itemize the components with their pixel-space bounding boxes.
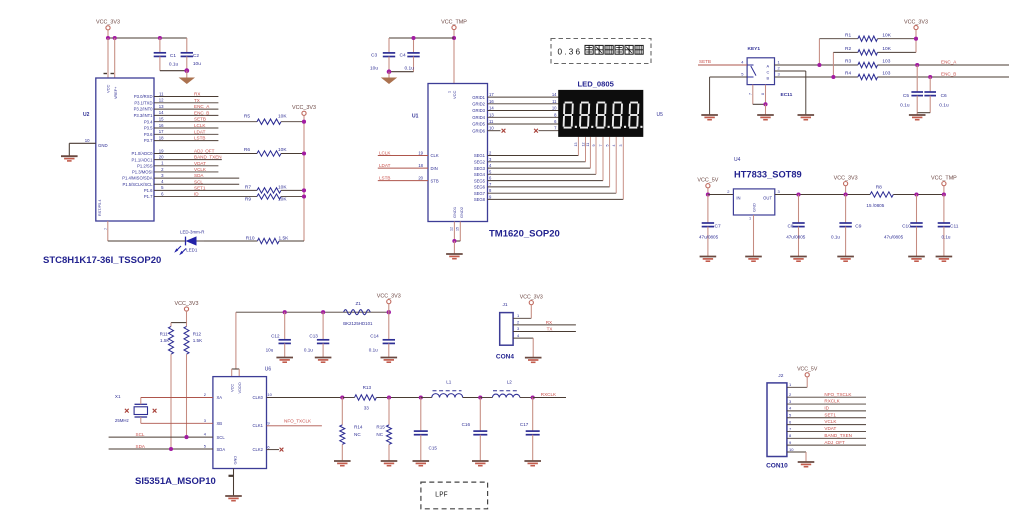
ground under C16 [472,460,489,462]
svg-text:C2: C2 [193,53,199,59]
ground under C14 [381,357,398,359]
wire GND pin [69,142,96,144]
ground at key pin5 [701,114,718,116]
svg-text:103: 103 [882,59,890,65]
ground under J1 [525,357,542,359]
svg-text:7: 7 [104,228,108,230]
svg-text:GRID2: GRID2 [472,102,485,107]
j2 pin9 wire net ADJ_OFT [787,444,866,446]
svg-text:TM1620_SOP20: TM1620_SOP20 [489,229,560,240]
net label SCL wire [109,436,213,438]
svg-text:RX: RX [546,320,552,325]
ground under C5/C6 [909,114,926,116]
junction dot [452,239,456,243]
svg-text:R10: R10 [246,235,255,241]
svg-text:16: 16 [489,99,494,104]
wire R10 to rail [279,240,304,242]
svg-text:U5: U5 [657,112,664,118]
svg-text:0.1u: 0.1u [900,103,910,109]
wire U4 out rail [775,194,870,196]
display digits 8.8.8.8.8. [565,102,573,104]
svg-text:NC: NC [354,432,361,437]
svg-text:C: C [767,70,770,75]
ground under C12 [276,357,293,359]
svg-text:GND: GND [233,456,238,465]
capacitor C2 [186,38,188,53]
j1 pin2 wire net RX [513,324,576,326]
junction dots rail [283,310,287,314]
capacitor C3 [388,38,390,53]
ground under J2 [798,461,815,463]
svg-text:P1.7: P1.7 [144,194,153,199]
junction dot R11/SDA [169,447,173,451]
svg-text:11: 11 [586,143,590,147]
svg-text:VDAT: VDAT [824,426,836,431]
svg-text:GRID5: GRID5 [472,122,485,127]
svg-text:R6: R6 [244,147,250,153]
note dashed box LPF [421,482,488,509]
ground at key pin2 [798,114,815,116]
tm1620 pin DIN net LDAT [378,167,428,169]
svg-text:VCC_3V3: VCC_3V3 [520,294,543,300]
svg-text:7: 7 [748,93,752,95]
j2 pin5 wire net SET1 [787,417,866,419]
svg-text:10K: 10K [882,46,891,52]
svg-text:P3.5: P3.5 [144,126,153,131]
resistor R8 15/0805 [870,192,893,197]
wire SEG3 riser to display [589,137,591,168]
svg-text:A: A [767,64,770,69]
svg-text:LED1: LED1 [186,247,198,252]
regulator U4 body [733,189,774,215]
resistor R9 10K [257,194,281,199]
svg-text:0.36: 0.36 [558,47,583,56]
svg-text:C1: C1 [170,53,176,59]
svg-text:SET1: SET1 [824,412,836,417]
svg-text:R2: R2 [845,46,851,52]
svg-text:VCLK: VCLK [824,419,837,424]
svg-text:1.5K: 1.5K [193,338,203,343]
j2 pin10 wire to gnd [787,451,806,453]
power port VCC_3V3 (pullup rail) [302,111,306,115]
svg-text:18: 18 [418,163,423,168]
key1 pin5 wire to gnd [710,76,748,78]
svg-text:U1: U1 [412,114,419,120]
svg-text:18: 18 [159,135,164,140]
svg-text:BAND_TXEN: BAND_TXEN [824,433,852,438]
svg-text:R1: R1 [845,32,851,38]
svg-text:P1.0/ADC0: P1.0/ADC0 [132,151,154,156]
j2 pin7 wire net VDAT [787,430,866,432]
svg-text:P3.7: P3.7 [144,138,153,143]
svg-text:33: 33 [364,405,370,410]
pin number marks top [104,73,108,75]
svg-text:R11: R11 [160,332,169,337]
svg-text:R4: R4 [845,71,851,77]
svg-text:NFO_TXCLK: NFO_TXCLK [284,418,312,423]
wire SEG1 riser to display [577,137,579,156]
svg-text:CLK1: CLK1 [253,423,264,428]
svg-text:BAND_TXEN: BAND_TXEN [194,155,222,160]
net label SDA wire [109,448,213,450]
wire VCC_TMP stem [453,30,455,84]
note dashed box 0.36 inch common-cathode display [551,39,651,64]
svg-text:SDA: SDA [217,447,226,452]
ground under C7 [700,256,717,258]
svg-text:0.1u: 0.1u [942,234,951,239]
svg-text:0.1u: 0.1u [369,348,378,353]
wire mcu pin7 to LED row [107,221,109,241]
svg-text:VCC_5V: VCC_5V [797,367,818,373]
junction dot R15 [387,395,391,399]
junction dot C5 [915,63,919,67]
svg-text:ENC_B: ENC_B [194,110,209,115]
svg-text:19: 19 [159,148,164,153]
junction dot [184,68,189,73]
svg-text:DIN: DIN [431,166,438,171]
svg-text:15: 15 [159,117,164,122]
svg-text:SEG5: SEG5 [474,178,486,183]
wire L2 leads [480,397,492,399]
svg-text:0.1u: 0.1u [405,66,415,72]
svg-text:C17: C17 [520,422,529,427]
svg-text:47u/0805: 47u/0805 [884,234,904,239]
svg-text:P3.0/RXD: P3.0/RXD [134,94,153,99]
wire VCC_3V3 stem [107,30,109,38]
j2 pin4 wire net ID [787,410,866,412]
j2 pin8 wire net BAND_TXEN [787,437,866,439]
capacitor C10 47u/0805 [916,195,918,224]
svg-text:C6: C6 [941,93,947,99]
svg-text:VCC_3V3: VCC_3V3 [175,301,199,307]
svg-text:10K: 10K [278,114,287,120]
junction dot C16 [478,395,482,399]
wire gnd stem [765,104,767,115]
key1 pin3 wire [775,76,858,78]
wire R12 to SCL [186,354,188,437]
svg-text:0.1u: 0.1u [939,103,949,109]
wire VCC_3V3 stem [845,186,847,195]
ground under R15 [381,460,398,462]
power port VCC_5V [706,184,710,188]
j2 pin1 wire to VCC_5V [787,386,807,388]
svg-text:19: 19 [418,150,423,155]
svg-text:SCL: SCL [194,179,203,184]
wire C5/C6 join [917,112,930,114]
svg-text:LSTB: LSTB [379,175,391,180]
junction dot [387,69,392,74]
svg-text:P1.1/ADC1: P1.1/ADC1 [132,157,154,162]
svg-text:X1: X1 [115,394,121,399]
svg-text:VCC: VCC [452,90,457,99]
svg-text:VCC: VCC [106,84,111,93]
svg-text:KEY1: KEY1 [748,46,761,52]
ground under C8 [790,256,807,258]
svg-text:J1: J1 [503,302,508,308]
junction dots pullup rail [302,120,306,124]
ground under C13 [315,357,332,359]
j1 pin1 wire to VCC [513,317,531,319]
svg-text:ENC_A: ENC_A [194,104,210,109]
capacitor C9 0.1u [845,195,847,224]
wire gnd stem [453,241,455,254]
svg-text:SET1: SET1 [194,185,206,190]
svg-text:STC8H1K17-36I_TSSOP20: STC8H1K17-36I_TSSOP20 [43,255,161,266]
svg-text:B: B [767,75,770,80]
svg-text:47u/0805: 47u/0805 [699,234,719,239]
capacitor C1 [159,38,161,53]
svg-text:10K: 10K [278,147,287,153]
svg-text:SDA: SDA [194,173,204,178]
svg-text:15 /0805: 15 /0805 [866,203,884,208]
resistor R7 10K [257,188,281,193]
key1 pin1 wire [775,64,858,66]
svg-text:12: 12 [450,227,454,231]
svg-text:C16: C16 [462,422,471,427]
svg-text:SEG1: SEG1 [474,153,486,158]
svg-text:4: 4 [612,145,616,147]
svg-text:BK2125HD101: BK2125HD101 [343,321,373,326]
ground under C3 [381,78,397,85]
svg-text:1: 1 [749,217,751,221]
svg-text:VCC_3V3: VCC_3V3 [292,105,316,111]
led LED1 symbol [185,237,187,246]
svg-text:1: 1 [448,91,452,93]
ferrite bead Z1 BK2125HD101 [344,310,371,315]
capacitor C4 [413,38,415,53]
svg-text:STB: STB [431,178,439,183]
svg-text:VCC_3V3: VCC_3V3 [834,175,858,181]
svg-text:GRID1: GRID1 [472,95,485,100]
wire cap bottom join [160,70,187,72]
svg-text:10: 10 [489,126,494,131]
svg-text:HT7833_SOT89: HT7833_SOT89 [734,169,802,179]
svg-text:GND: GND [98,143,108,148]
wire cap bottoms [389,71,414,73]
wire R11 to SDA [170,354,172,449]
wire pullup tee [186,311,188,323]
ground under U4 [745,256,762,258]
resistor R13 33 [355,395,377,400]
svg-text:CLK2: CLK2 [253,447,264,452]
svg-text:11: 11 [159,91,164,96]
svg-text:LCLK: LCLK [194,123,206,128]
svg-text:SCL: SCL [217,435,226,440]
ic U2 STC8H1K17 body [96,78,154,221]
wire R1 left vertical [818,39,820,65]
svg-text:10u: 10u [370,66,378,72]
wire XA [140,398,142,405]
svg-text:ID: ID [194,192,199,197]
svg-text:SEG7: SEG7 [474,191,486,196]
wire ground stem [186,71,188,78]
connector J1 body [500,313,513,346]
wire pullup rail [303,115,305,241]
svg-text:3: 3 [619,145,623,147]
wire VCC stem [388,304,390,313]
svg-text:17: 17 [489,92,494,97]
key1 switch symbol [747,64,753,66]
key1 bottom stubs [752,85,754,105]
svg-text:10K: 10K [882,32,891,38]
capacitor C6 0.1u [929,77,931,92]
wire rail to C3/C4 [389,37,454,39]
svg-text:CLK: CLK [431,153,439,158]
svg-text:TX: TX [194,98,200,103]
junction dot C17 [531,395,535,399]
svg-text:GRID3: GRID3 [472,108,485,113]
svg-text:LDAT: LDAT [194,129,206,134]
svg-text:VCC_3V3: VCC_3V3 [904,19,928,25]
svg-text:SETB: SETB [699,59,711,64]
svg-text:ENC_A: ENC_A [941,59,957,64]
svg-text:RST/P5.4: RST/P5.4 [98,200,102,216]
svg-text:11: 11 [552,99,557,104]
capacitor C16 [479,398,481,432]
svg-text:C9: C9 [855,223,861,229]
svg-text:11: 11 [489,119,494,124]
svg-text:0.1u: 0.1u [304,348,313,353]
svg-text:GND1: GND1 [452,206,457,218]
svg-text:SEG8: SEG8 [474,197,486,202]
svg-text:L2: L2 [507,380,513,385]
power port VCC_5V (J2) [805,373,809,377]
svg-text:ENC_B: ENC_B [941,72,956,77]
junction dot [763,102,767,106]
resistor R15 NC [388,398,390,425]
svg-text:SCL: SCL [136,432,145,437]
wire rail drop to chip [235,312,237,369]
wire R2 left vertical [832,52,834,77]
svg-text:ID: ID [824,406,829,411]
wire input to U4 [708,194,734,196]
svg-text:CON4: CON4 [496,354,514,361]
svg-text:CON10: CON10 [766,462,788,469]
j2 pin3 wire net RXCLK [787,403,866,405]
resistor R6 10K [257,151,281,156]
svg-text:EC11: EC11 [781,92,793,98]
svg-text:CLK0: CLK0 [253,395,264,400]
svg-text:VCLK: VCLK [194,167,207,172]
svg-text:P1.6: P1.6 [144,188,153,193]
svg-text:16: 16 [159,123,164,128]
wire VCC_5V stem [707,188,709,195]
svg-text:LPF: LPF [435,492,448,500]
svg-text:5: 5 [605,145,609,147]
wire GND drop [68,143,70,156]
svg-text:OUT: OUT [763,196,772,201]
svg-text:C12: C12 [271,334,280,339]
resistor R10 1.5K [257,238,279,243]
wire XB [140,417,142,423]
svg-text:NFO_TXCLK: NFO_TXCLK [824,392,852,397]
svg-text:GND2: GND2 [459,206,464,218]
power port VCC_TMP [452,25,456,29]
junction dot C8 [796,192,800,196]
ground at MCU GND [61,155,78,157]
svg-text:P3.3/INT1: P3.3/INT1 [134,113,154,118]
wire MCU VCC stub [107,38,109,78]
resistor R3 103 [858,62,878,67]
svg-text:0.1u: 0.1u [831,234,840,239]
svg-text:TX: TX [547,327,553,332]
svg-text:10: 10 [267,392,272,397]
ic U6 SI5351A body [213,377,267,469]
ic U1 TM1620 body [428,84,488,222]
junction dot C10 [914,192,918,196]
svg-text:VREF+: VREF+ [114,86,118,99]
svg-text:R12: R12 [193,332,202,337]
junction dots on VCC rail [106,36,110,40]
svg-text:LCLK: LCLK [379,150,391,155]
wire vcc rail [236,311,389,313]
power port VCC_3V3 (ldo out) [844,182,848,186]
svg-text:10: 10 [552,106,557,111]
svg-text:VCC: VCC [229,384,234,392]
ground under U6 [225,495,242,497]
svg-text:LDAT: LDAT [379,163,391,168]
svg-text:IN: IN [736,196,740,201]
svg-text:SEG3: SEG3 [474,166,486,171]
svg-text:VCC_3V3: VCC_3V3 [96,20,120,26]
wire VCC stem to R1/R2 [915,30,917,53]
wire SEG4 riser to display [595,137,597,175]
svg-text:LSTB: LSTB [194,136,206,141]
svg-text:NC: NC [376,432,383,437]
svg-text:ADJ_OFT: ADJ_OFT [194,149,215,154]
power port VCC_3V3 (J1) [529,301,533,305]
svg-text:C3: C3 [371,53,377,59]
svg-text:SI5351A_MSOP10: SI5351A_MSOP10 [135,476,216,487]
ground under C15 [413,460,430,462]
net label SETB wire pin4 [698,64,747,66]
svg-text:10K: 10K [278,184,287,190]
ground under C11 [936,256,953,258]
svg-text:25MHz: 25MHz [115,418,129,423]
capacitor C5 0.1u [916,65,918,92]
wire SEG8 riser to display [622,137,624,200]
svg-text:SEG6: SEG6 [474,185,486,190]
svg-text:L1: L1 [446,380,452,385]
svg-text:GRID6: GRID6 [472,128,485,133]
power port VCC_3V3 (after Z1) [387,300,391,304]
svg-text:C11: C11 [950,223,959,229]
svg-text:XA: XA [217,395,223,400]
capacitor C17 [532,398,534,432]
capacitor C15 [420,398,422,432]
svg-text:20: 20 [159,154,164,159]
svg-text:47u/0805: 47u/0805 [786,234,806,239]
svg-text:R3: R3 [845,59,851,65]
key1 EC11 body [747,58,774,85]
svg-text:R15: R15 [376,424,385,429]
wire gnd stem [916,113,918,115]
svg-text:RXCLK: RXCLK [541,392,557,397]
svg-text:GND: GND [752,203,757,212]
ground under key1 [757,114,774,116]
svg-text:J2: J2 [778,373,783,379]
svg-text:P3.2/INT0: P3.2/INT0 [134,107,154,112]
wire SEG6 riser to display [609,137,611,187]
j2 pin2 wire net NFO_TXCLK [787,396,866,398]
junction dot R14 [340,395,344,399]
svg-text:20: 20 [418,175,423,180]
connector J2 body [767,383,787,457]
svg-text:C4: C4 [400,53,406,59]
junction dot C6 [928,75,932,79]
capacitor C7 47u/0805 [707,195,709,224]
svg-text:0.1u: 0.1u [169,62,179,68]
